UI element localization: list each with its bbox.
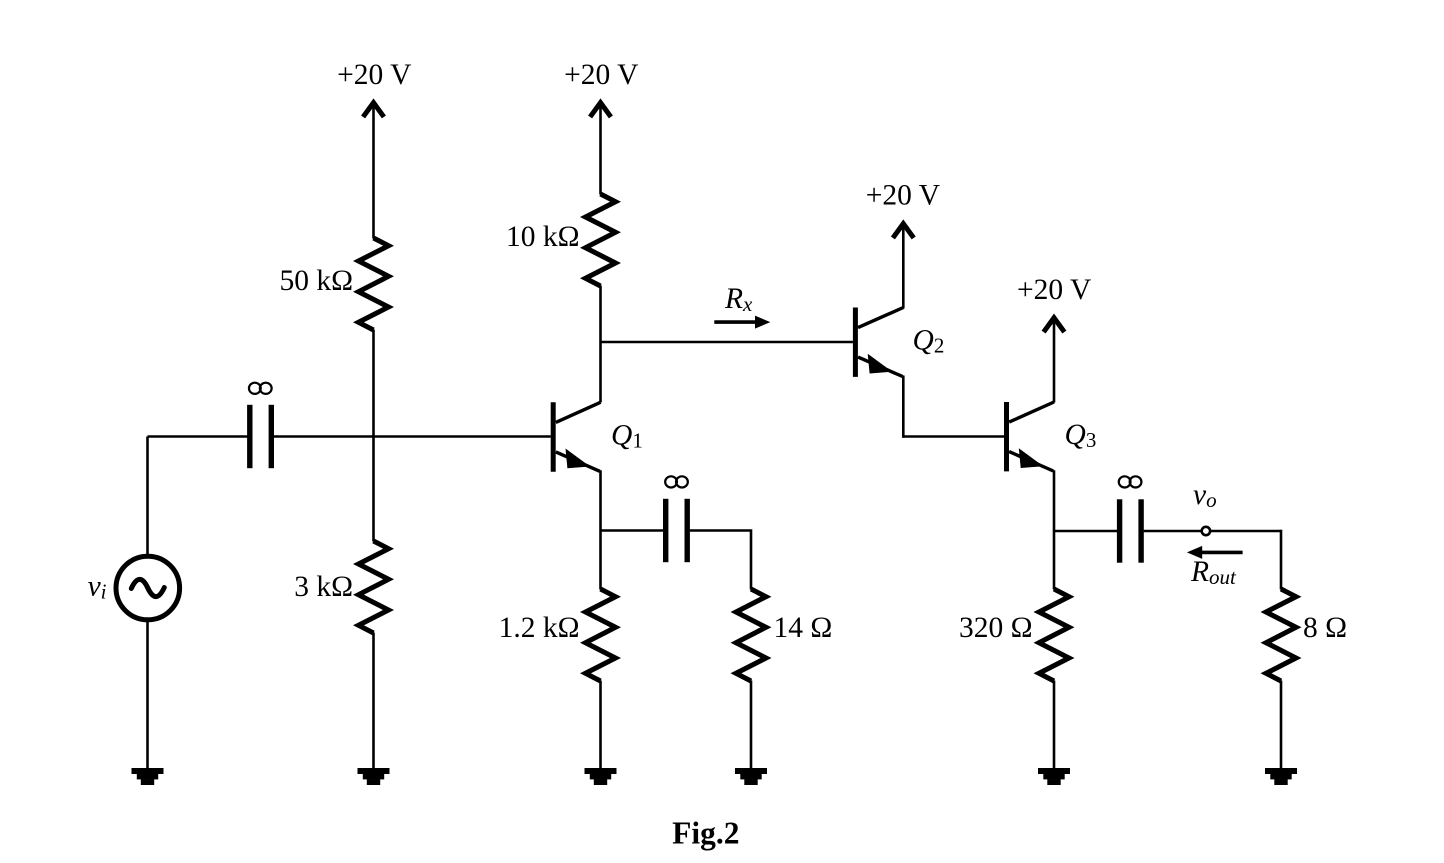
transistor Q1 — [553, 402, 600, 471]
wire 320 to ground — [1053, 681, 1056, 770]
wire 10k to Q1 collector (through Rx node) — [599, 286, 602, 403]
ground (divider) — [358, 768, 390, 785]
+20V supply arrow (Q2) — [893, 224, 914, 238]
wire source bottom — [146, 619, 149, 770]
ground (320 Ohm) — [1038, 768, 1070, 785]
transistor Q3 — [1007, 402, 1055, 471]
wire supply to Q2 collector — [902, 226, 905, 309]
svg-text:10 kΩ: 10 kΩ — [506, 221, 580, 253]
+20V supply arrow (Q3) — [1044, 318, 1065, 332]
+20V supply arrow (10k) — [590, 103, 611, 117]
wire source top — [146, 437, 149, 558]
capacitor C2 (infinity) — [663, 499, 690, 562]
wire Q3 emitter down — [1053, 470, 1056, 589]
resistor 8 Ohm — [1266, 589, 1296, 681]
svg-text:8 Ω: 8 Ω — [1303, 612, 1347, 644]
wire Q3 emitter to C3 — [1054, 530, 1117, 533]
wire Q2 emitter to Q3 base — [903, 435, 1004, 438]
wire 14 Ohm to ground — [750, 681, 753, 770]
ground (14 Ohm) — [735, 768, 767, 785]
wire Q2 emitter down — [902, 376, 905, 438]
svg-text:+20 V: +20 V — [866, 180, 940, 212]
svg-text:+20 V: +20 V — [564, 59, 638, 91]
svg-text:3 kΩ: 3 kΩ — [294, 571, 353, 603]
svg-text:Fig.2: Fig.2 — [672, 816, 739, 851]
svg-text:+20 V: +20 V — [1017, 274, 1091, 306]
resistor 50 kOhm — [359, 238, 389, 330]
resistor 320 Ohm — [1039, 589, 1069, 681]
wire C3 to load corner — [1144, 530, 1281, 533]
infinity label C3 — [1119, 476, 1142, 487]
wire Q1 emitter down — [599, 470, 602, 589]
capacitor C3 (infinity) — [1117, 499, 1144, 562]
Rx arrow — [714, 316, 770, 329]
wire corner to 8 Ohm — [1280, 530, 1283, 590]
resistor 3 kOhm — [359, 541, 389, 633]
Rout arrow — [1187, 546, 1243, 559]
wire supply to 50k — [372, 105, 375, 239]
resistor 14 Ohm — [736, 589, 766, 681]
AC source vi — [116, 556, 180, 620]
wire 50k to 3k (through base node) — [372, 330, 375, 542]
wire C2 to 14 Ohm — [690, 531, 751, 590]
wire C1 to Q1 base (through divider node) — [273, 435, 550, 438]
wire 1.2k to ground — [599, 681, 602, 770]
svg-text:1.2 kΩ: 1.2 kΩ — [499, 612, 580, 644]
wire 3k to ground — [372, 633, 375, 770]
wire 8 Ohm to ground — [1280, 681, 1283, 770]
ground (Q1 emitter) — [585, 768, 617, 785]
svg-text:50 kΩ: 50 kΩ — [279, 265, 353, 297]
transistor Q2 — [855, 308, 903, 377]
wire Q1 collector to Q2 base — [601, 341, 853, 344]
wire Q1 emitter to C2 — [601, 529, 664, 532]
infinity label C2 — [665, 476, 688, 487]
ground (source) — [132, 768, 164, 785]
+20V supply arrow (50k) — [363, 103, 384, 117]
resistor 1.2 kOhm — [586, 589, 616, 681]
infinity label C1 — [249, 383, 272, 394]
svg-text:320 Ω: 320 Ω — [959, 612, 1033, 644]
svg-text:14 Ω: 14 Ω — [774, 612, 833, 644]
ground (8 Ohm) — [1265, 768, 1297, 785]
resistor 10 kOhm — [586, 194, 616, 286]
wire source to C1 — [148, 435, 248, 438]
wire supply to Q3 collector — [1053, 320, 1056, 403]
capacitor C1 (infinity) — [247, 405, 274, 468]
svg-text:+20 V: +20 V — [337, 59, 411, 91]
wire supply to 10k — [599, 105, 602, 195]
node v_o (open terminal) — [1202, 527, 1210, 535]
